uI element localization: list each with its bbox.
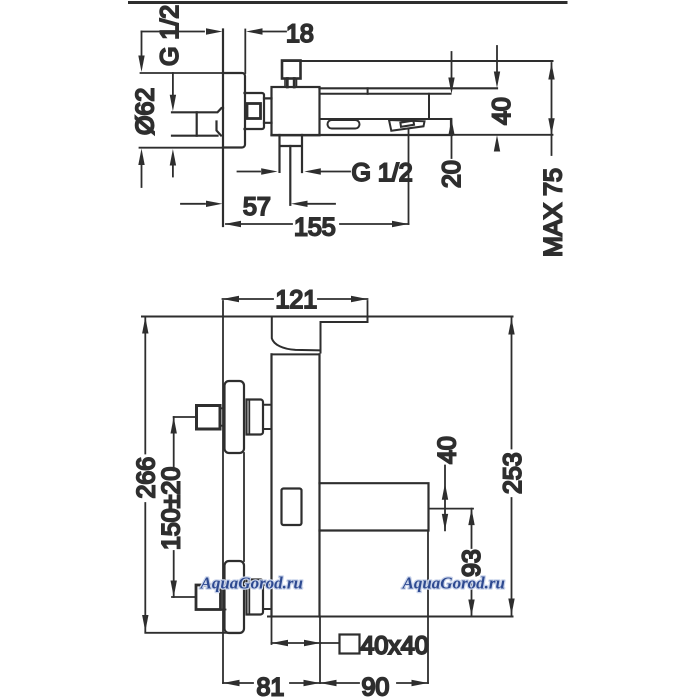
upper neck	[263, 405, 272, 429]
escutcheon ext line x=245.5	[244, 30, 246, 74]
body column front view	[272, 354, 320, 616]
esc segment line between escutcheons	[243, 453, 245, 561]
svg-text:150±20: 150±20	[158, 467, 186, 550]
upper nut	[247, 400, 264, 435]
svg-text:40x40: 40x40	[361, 632, 429, 660]
spout top line	[320, 87, 498, 89]
dim 40x40 double arrow	[272, 642, 321, 644]
top border line (cropped drawing edge)	[130, 1, 567, 4]
svg-text:20: 20	[438, 160, 466, 188]
body bottom line	[268, 616, 513, 618]
lower nut	[247, 580, 264, 615]
top ext line bottom view	[142, 316, 513, 318]
svg-text:18: 18	[286, 20, 314, 48]
square symbol	[340, 635, 360, 654]
G1/2 down arrow to pipe x=173	[172, 73, 174, 95]
hand shower stub	[280, 135, 303, 172]
spout second line	[320, 93, 451, 95]
dim 40 top: lower arrow	[494, 135, 500, 152]
svg-text:90: 90	[362, 674, 390, 700]
lever right post	[320, 322, 322, 353]
svg-text:G 1/2: G 1/2	[352, 159, 413, 187]
up arrow x=173 to y=148	[172, 166, 174, 177]
lower escutcheon	[225, 561, 245, 633]
lever front view: left part	[272, 317, 320, 351]
neck lines	[264, 98, 272, 122]
supply pipe behind wall top	[172, 108, 223, 112]
dim MAX75 line	[551, 63, 553, 155]
ext line x=367.5	[367, 301, 369, 322]
Ø62 bottom-left up arrow	[141, 165, 143, 187]
dim 57: left arrow	[181, 203, 205, 205]
supply pipe behind wall bottom	[172, 135, 218, 137]
diverter knob (tilted)	[389, 120, 425, 131]
svg-text:121: 121	[276, 286, 318, 314]
body top line	[272, 353, 320, 355]
nut inner square	[247, 104, 261, 119]
dim 121 right segment	[318, 298, 368, 300]
svg-text:Ø62: Ø62	[132, 88, 160, 135]
handle knob (side view)	[282, 61, 301, 79]
dim 90	[320, 682, 428, 684]
dim 18: leader	[263, 31, 286, 33]
dim 57: right arrow	[308, 203, 336, 205]
svg-text:40: 40	[488, 97, 516, 125]
dim 93: top ext	[429, 508, 474, 510]
svg-text:253: 253	[499, 452, 527, 494]
svg-text:266: 266	[133, 457, 161, 499]
svg-text:40: 40	[434, 436, 462, 464]
svg-text:AquaGorod.ru: AquaGorod.ru	[200, 574, 304, 593]
dim G1/2 mid: left arrow	[238, 171, 261, 173]
ext line y=147.5 to left	[140, 147, 224, 149]
dim G1/2 mid: right arrow	[321, 171, 350, 173]
ext line y=73 to left	[141, 72, 224, 74]
dim 155 line left segment	[226, 223, 292, 225]
body (side view)	[272, 87, 320, 135]
spout right end	[450, 119, 452, 135]
dim 266 line	[144, 317, 146, 454]
lower supply square	[196, 585, 221, 610]
supply pipe inner end	[217, 122, 222, 136]
supply pipe divider	[196, 112, 198, 135]
lever top line	[282, 60, 553, 62]
dim 121 left segment	[223, 298, 274, 300]
spout ext line down	[427, 531, 429, 684]
lower neck	[263, 585, 272, 609]
body edge extensions	[271, 617, 273, 645]
lever right bar bottom	[321, 317, 368, 323]
ext line y=631.5 (esc bottom to 266)	[145, 632, 240, 634]
svg-text:MAX 75: MAX 75	[540, 168, 568, 257]
aerator slot (stadium)	[328, 120, 360, 129]
bottom line body+spout	[272, 134, 453, 136]
dim G1/2 top: down arrow at x=141.5	[141, 32, 143, 57]
spout inner step	[428, 94, 430, 119]
wall line (side view)	[222, 30, 224, 227]
upper supply square	[197, 406, 221, 430]
svg-text:AquaGorod.ru: AquaGorod.ru	[402, 574, 506, 593]
hand shower pipe	[289, 146, 291, 205]
bottom ext line to MAX75	[452, 134, 553, 136]
dim 155 ext line (diverter)	[408, 129, 410, 224]
dim 40 bottom (spout height)	[444, 466, 446, 531]
dim 40 top: upper arrow	[496, 46, 498, 72]
spout seam tick	[367, 88, 369, 94]
long ext line x=223	[222, 301, 224, 683]
handle stem	[285, 79, 297, 88]
dim 93 line	[471, 509, 473, 616]
dim 20: lower arrow crossing bottom	[451, 119, 453, 158]
150±20 connectors	[172, 417, 196, 597]
connector nut (side view)	[245, 93, 265, 129]
spout front view	[320, 483, 429, 530]
leader to 40x40	[321, 642, 340, 644]
dim 150±20 line	[173, 417, 175, 471]
dim 155 line right segment	[340, 223, 409, 225]
escutcheon plate (side view)	[223, 73, 245, 148]
svg-text:57: 57	[243, 193, 271, 221]
upper escutcheon	[225, 381, 245, 453]
slot on body	[282, 489, 302, 526]
dim 253 line	[511, 318, 513, 615]
dim G1/2 top: leader to wall	[142, 31, 205, 33]
svg-text:G 1/2: G 1/2	[156, 5, 184, 66]
dim 20: upper arrow	[451, 52, 453, 78]
svg-text:81: 81	[257, 674, 285, 700]
dim 81	[223, 682, 320, 684]
svg-text:155: 155	[294, 214, 336, 242]
ext line y=317 left	[142, 316, 145, 318]
spout underside	[320, 118, 451, 120]
